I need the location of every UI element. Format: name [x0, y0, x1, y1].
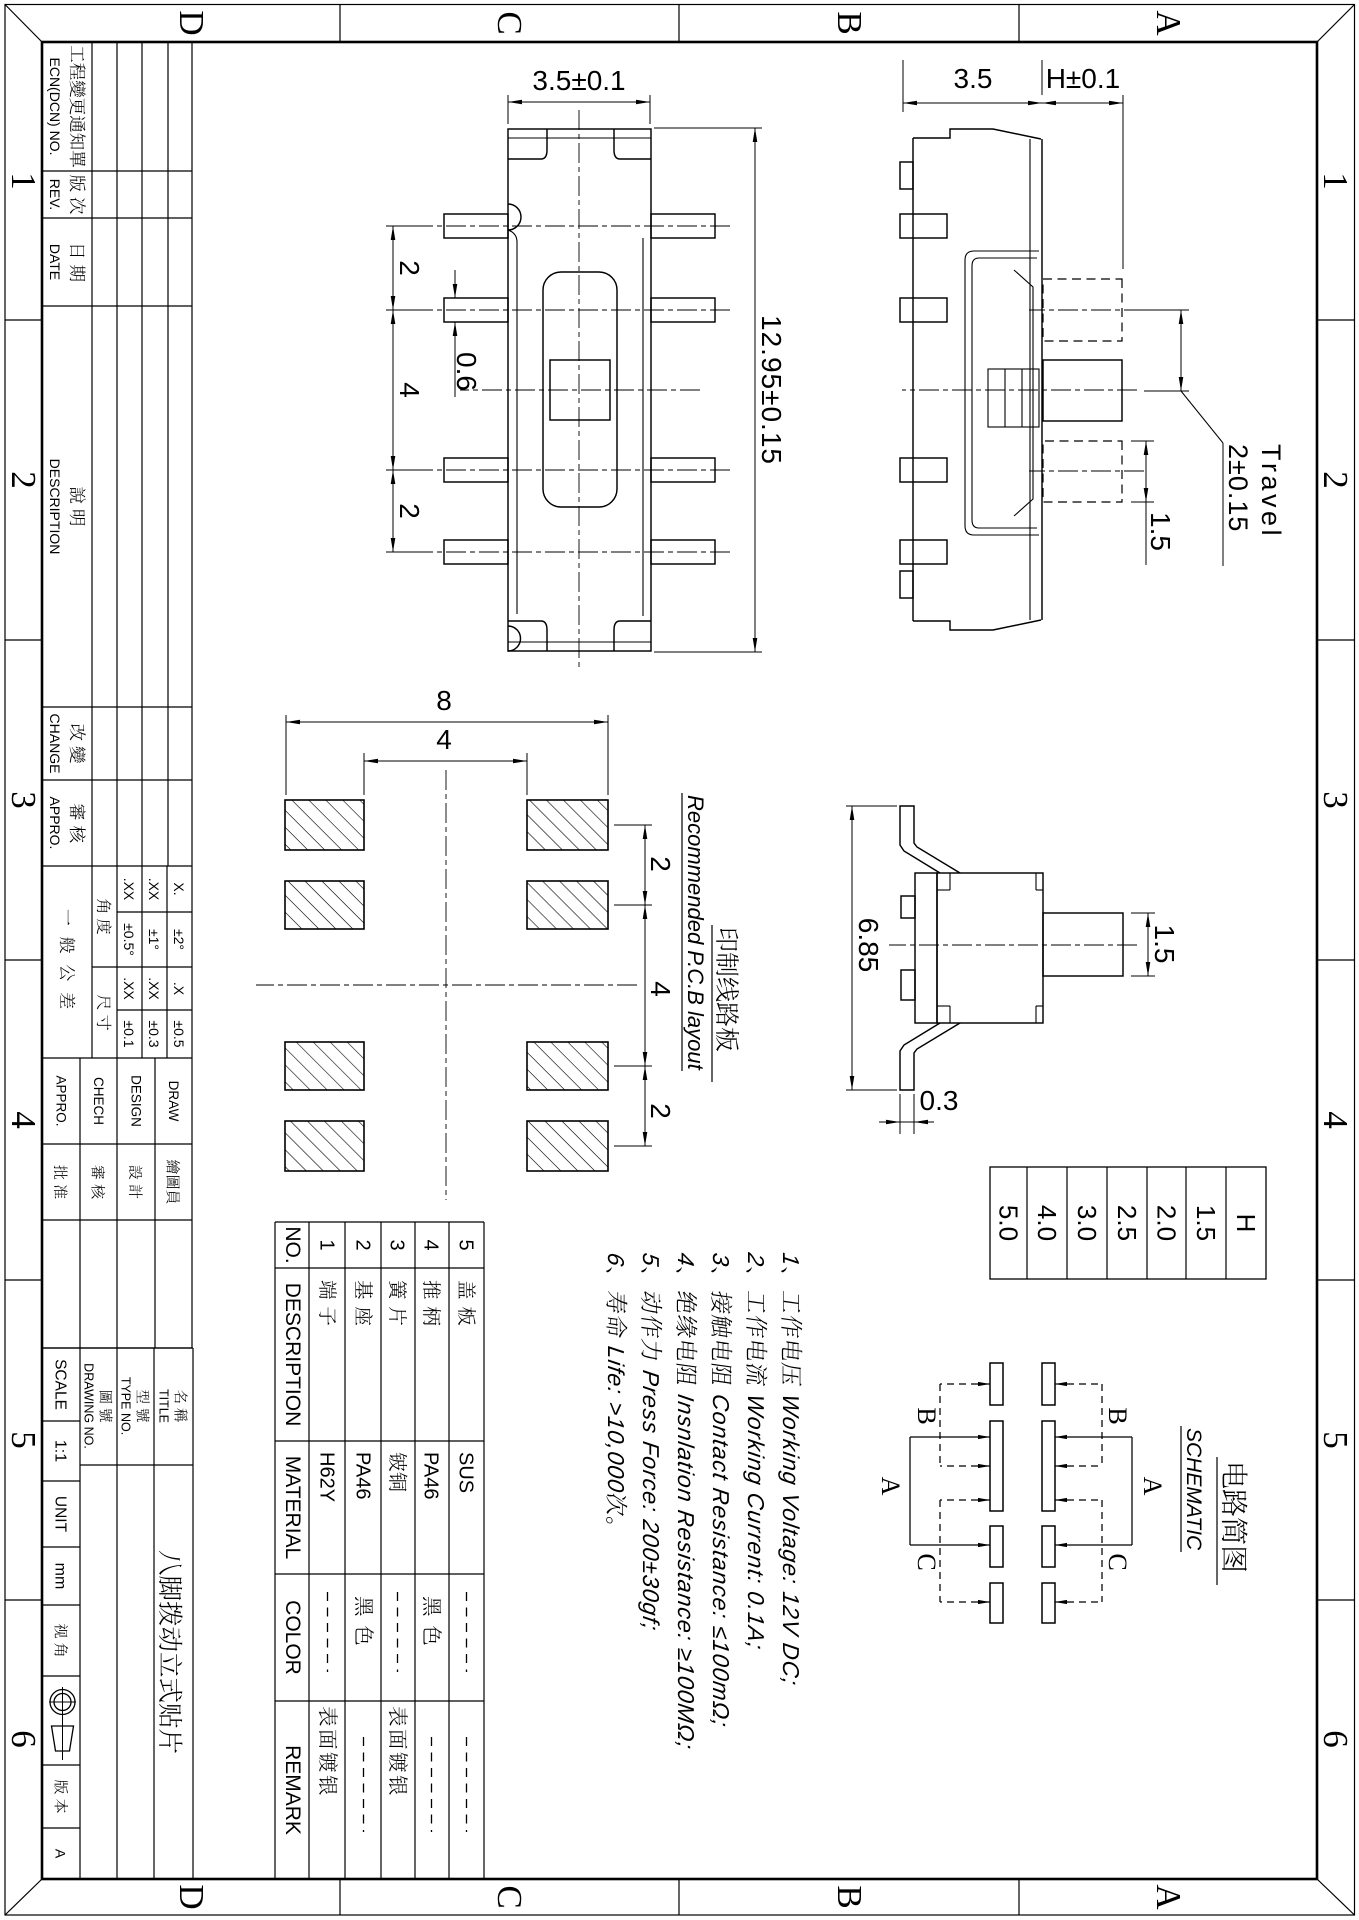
svg-text:B: B [1103, 1407, 1132, 1424]
view 3 left bent leg [900, 806, 960, 873]
zone ticks left/right edges [1018, 5, 1020, 43]
view 2 knob phantom right [1043, 441, 1122, 502]
svg-text:Travel: Travel [1256, 444, 1286, 539]
svg-text:DRAW: DRAW [166, 1081, 181, 1122]
schematic contact 4 bottom row [990, 1583, 1003, 1623]
dim 8 (pad span) [286, 721, 608, 723]
svg-text:4.0: 4.0 [1032, 1205, 1062, 1241]
view 2 left end profile [913, 129, 1041, 139]
svg-text:SCALE: SCALE [52, 1359, 69, 1410]
PCB centerlines [445, 770, 447, 1200]
svg-text:2: 2 [394, 503, 425, 519]
svg-text:SCHEMATIC: SCHEMATIC [1182, 1428, 1205, 1551]
svg-text:5: 5 [638, 1251, 664, 1268]
svg-text:NO.: NO. [281, 1226, 304, 1263]
view 1 centerline vertical [460, 389, 700, 391]
svg-text:Contact Resistance: ≤100mΩ;: Contact Resistance: ≤100mΩ; [708, 1393, 734, 1730]
svg-text:CHECH: CHECH [91, 1077, 106, 1125]
svg-text:±1°: ±1° [146, 929, 162, 950]
view 2 base bottom line [912, 138, 914, 621]
svg-text:1: 1 [4, 172, 43, 190]
svg-text:12.95±0.15: 12.95±0.15 [756, 315, 787, 465]
svg-text:8: 8 [436, 685, 452, 716]
dim chain 2/4/2 (pin pitch) [392, 226, 394, 552]
svg-text:2: 2 [352, 1239, 374, 1250]
dim 4 (pad inner gap) [364, 760, 527, 762]
view 2 centerline [902, 389, 1137, 391]
dim Travel 2±0.15 [1180, 310, 1182, 391]
svg-text:Press Force: 200±30gf;: Press Force: 200±30gf; [638, 1369, 664, 1634]
view 3 right bent leg [900, 1023, 960, 1090]
dim 1.5 (view 3 knob width) [1147, 913, 1149, 976]
svg-text:COLOR: COLOR [281, 1600, 304, 1675]
schematic title [1222, 1465, 1248, 1571]
svg-text:CHANGE: CHANGE [47, 714, 63, 774]
travel leader and label [1181, 391, 1223, 443]
zone ticks top/bottom edges [1317, 319, 1355, 321]
svg-text:MATERIAL: MATERIAL [281, 1456, 304, 1559]
svg-text:DATE: DATE [47, 244, 63, 280]
svg-text:H62Y: H62Y [316, 1452, 338, 1502]
corner diagonal top-right [1317, 1879, 1355, 1915]
view 2 phantom centerlines [1029, 309, 1144, 311]
svg-text:2: 2 [1316, 471, 1355, 489]
svg-text:1: 1 [316, 1239, 338, 1250]
svg-text:1.5: 1.5 [1145, 512, 1176, 551]
svg-text:SUS: SUS [455, 1452, 477, 1493]
view 1: front view outline [508, 129, 651, 651]
svg-text:4: 4 [436, 724, 452, 755]
svg-text:3: 3 [1316, 791, 1355, 809]
svg-text:6: 6 [603, 1251, 629, 1268]
dim 12.95±0.15 (view 1 length) [754, 128, 756, 652]
view 1 left end tab lines [614, 129, 651, 159]
view 3 bottom corner blocks [937, 889, 950, 891]
dim 1.5 (phantom knob width) [1145, 441, 1147, 565]
svg-text:A: A [876, 1477, 905, 1496]
view 2 top cover edge [1041, 139, 1043, 620]
view 1 semicircle notch left [508, 204, 521, 230]
svg-text:C: C [1103, 1553, 1132, 1570]
svg-text:6: 6 [1316, 1730, 1355, 1748]
svg-text:1:1: 1:1 [52, 1440, 69, 1462]
svg-text:±0.1: ±0.1 [121, 1020, 137, 1047]
view 3 top steps [1035, 873, 1037, 890]
wire C top (dashed) [1055, 1499, 1102, 1501]
svg-text:3: 3 [708, 1251, 734, 1268]
wire A top (solid) [1055, 1436, 1132, 1438]
view 3 knob [1043, 913, 1123, 976]
svg-text:DESCRIPTION: DESCRIPTION [47, 459, 63, 555]
svg-text:TYPE NO.: TYPE NO. [119, 1377, 133, 1435]
view 2 slider section [988, 369, 1039, 427]
svg-text:4: 4 [4, 1111, 43, 1129]
schematic common contact 2 bottom row [990, 1421, 1003, 1511]
svg-text:.XX: .XX [121, 878, 137, 901]
svg-text:Life: >10,000: Life: >10,000 [603, 1345, 629, 1495]
view 1 left end seam [508, 137, 651, 139]
svg-text:DESIGN: DESIGN [129, 1075, 144, 1127]
signature table [42, 1143, 192, 1145]
view 3: end view body [937, 873, 1043, 1023]
svg-text:A: A [53, 1849, 69, 1859]
dim 3.5±0.1 (view 1 width) [508, 101, 650, 103]
svg-text:2±0.15: 2±0.15 [1223, 444, 1253, 532]
svg-text:B: B [830, 11, 869, 34]
technical notes [778, 1251, 804, 1687]
svg-text:5: 5 [455, 1239, 477, 1250]
svg-text:DRAWING NO.: DRAWING NO. [82, 1363, 96, 1449]
svg-text:mm: mm [52, 1563, 69, 1590]
schematic contact 1 top row [1042, 1363, 1055, 1405]
dim H±0.1 (knob height) [1042, 102, 1123, 104]
svg-text:4: 4 [394, 382, 425, 398]
part name [159, 1551, 183, 1753]
svg-text:±0.5°: ±0.5° [121, 923, 137, 956]
svg-text:D: D [172, 1884, 211, 1909]
view 2 inner cavity outer shell [965, 251, 1039, 535]
view 2 base feet [900, 214, 947, 238]
svg-text:.XX: .XX [121, 977, 137, 1000]
view 1 right end tab lines [614, 621, 651, 651]
svg-text:1: 1 [1316, 172, 1355, 190]
corner diagonal bottom-right [5, 1879, 42, 1915]
svg-text:±0.3: ±0.3 [146, 1020, 162, 1047]
schematic contact 1 bottom row [990, 1363, 1003, 1405]
view 2 knob solid [1043, 360, 1122, 421]
svg-text:2: 2 [4, 471, 43, 489]
svg-text:3.5±0.1: 3.5±0.1 [532, 65, 625, 96]
svg-text:3.0: 3.0 [1072, 1205, 1102, 1241]
svg-text:UNIT: UNIT [52, 1496, 69, 1533]
view 3 base plate [915, 873, 937, 1023]
view 3 terminal pins under base [901, 896, 915, 918]
svg-text:REMARK: REMARK [281, 1745, 304, 1835]
wire C bottom (dashed) [940, 1499, 990, 1501]
svg-text:2.0: 2.0 [1152, 1205, 1182, 1241]
svg-text:1: 1 [778, 1251, 804, 1268]
svg-text:A: A [1149, 10, 1188, 36]
svg-text:A: A [1138, 1477, 1167, 1496]
svg-text:PA46: PA46 [420, 1452, 442, 1499]
svg-text:2: 2 [394, 260, 425, 276]
view 1 right end seam [508, 641, 651, 643]
view 1 slider channel [543, 272, 617, 507]
svg-text:C: C [490, 11, 529, 34]
svg-text:2: 2 [645, 1103, 676, 1119]
schematic contact 3 top row [1042, 1526, 1055, 1567]
title block [42, 1347, 193, 1349]
svg-text:4: 4 [673, 1251, 699, 1268]
svg-text:4: 4 [420, 1239, 442, 1250]
svg-text:C: C [912, 1553, 941, 1570]
dim 3.5 (view 2 height) [903, 102, 1042, 104]
third-angle projection symbol [50, 1690, 75, 1715]
svg-text:Working Current: 0.1A;: Working Current: 0.1A; [743, 1393, 769, 1653]
svg-text:B: B [912, 1407, 941, 1424]
svg-text:H±0.1: H±0.1 [1046, 63, 1121, 94]
corner diagonal bottom-left [5, 5, 42, 43]
svg-text:0.6: 0.6 [451, 352, 482, 391]
svg-text:DESCRIPTION: DESCRIPTION [281, 1283, 304, 1427]
wire B bottom (dashed) [940, 1383, 990, 1385]
svg-text:APPRO.: APPRO. [54, 1075, 69, 1126]
parts list table [275, 1221, 484, 1223]
svg-text:A: A [1149, 1884, 1188, 1910]
svg-text:2.5: 2.5 [1112, 1205, 1142, 1241]
wire A bottom (solid) [910, 1436, 990, 1438]
schematic contact 3 bottom row [990, 1526, 1003, 1567]
svg-text:1.5: 1.5 [1191, 1205, 1221, 1241]
schematic contact 4 top row [1042, 1583, 1055, 1623]
view 2 inner cavity inner shell [972, 258, 1037, 528]
svg-text:Working Voltage: 12V DC;: Working Voltage: 12V DC; [778, 1393, 804, 1688]
view 2 cavity neck lines [1014, 270, 1033, 516]
svg-text:6.85: 6.85 [853, 918, 884, 973]
svg-text:H: H [1231, 1214, 1261, 1233]
svg-text:APPRO.: APPRO. [47, 797, 63, 850]
svg-text:Insnlation Resistance: ≥100MΩ;: Insnlation Resistance: ≥100MΩ; [673, 1393, 699, 1752]
dim 6.85 (view 3 overall width) [851, 806, 853, 1090]
svg-text:±2°: ±2° [171, 929, 187, 950]
view 1 semicircle notch right [508, 626, 521, 651]
svg-text:2: 2 [743, 1250, 769, 1268]
svg-text:3.5: 3.5 [954, 63, 993, 94]
svg-text:TITLE: TITLE [157, 1389, 171, 1423]
svg-text:.XX: .XX [146, 878, 162, 901]
svg-text:2: 2 [645, 856, 676, 872]
corner diagonal top-left [1317, 5, 1355, 43]
svg-text:REV.: REV. [47, 179, 63, 210]
PCB layout titles [716, 929, 739, 1051]
svg-text:4: 4 [645, 981, 676, 997]
view 1 pins [651, 214, 715, 238]
general tolerance table [191, 866, 193, 1058]
schematic common contact 2 top row [1042, 1421, 1055, 1511]
svg-text:5.0: 5.0 [994, 1205, 1024, 1241]
view 2 right end profile [913, 620, 1041, 630]
svg-text:1.5: 1.5 [1149, 925, 1180, 964]
svg-text:X.: X. [171, 882, 187, 895]
svg-text:ECN(DCN) NO.: ECN(DCN) NO. [47, 58, 63, 156]
view 1 pin axes [428, 225, 730, 227]
svg-text:PA46: PA46 [352, 1452, 374, 1499]
view 1 slider knob [550, 360, 610, 420]
view 2 knob phantom left [1043, 279, 1122, 341]
svg-text:D: D [172, 10, 211, 35]
svg-text:3: 3 [386, 1239, 408, 1250]
svg-text:.XX: .XX [146, 977, 162, 1000]
view 1 centerline horizontal [578, 110, 580, 670]
svg-text:Recommended P.C.B layout: Recommended P.C.B layout [683, 795, 708, 1071]
svg-text:5: 5 [4, 1431, 43, 1449]
svg-text:±0.5: ±0.5 [171, 1020, 187, 1047]
svg-text:6: 6 [4, 1730, 43, 1748]
view 1 cover seam lines [508, 230, 517, 614]
H dimension table [990, 1167, 1266, 1279]
dim chain 2/4/2 (pad pitch) [644, 825, 646, 1146]
view 3 centerline [889, 944, 1137, 946]
dim 0.6 (pin width) [454, 270, 456, 298]
svg-text:3: 3 [4, 791, 43, 809]
view 2 cover under line [1029, 139, 1031, 620]
svg-text:B: B [830, 1885, 869, 1908]
revision table [191, 42, 193, 866]
svg-text:0.3: 0.3 [920, 1085, 959, 1116]
svg-text:5: 5 [1316, 1431, 1355, 1449]
svg-text:4: 4 [1316, 1111, 1355, 1129]
wire B top (dashed) [1055, 1383, 1102, 1385]
svg-text:.X: .X [171, 982, 187, 996]
dim 0.3 (leg thickness) [879, 1121, 934, 1123]
svg-text:C: C [490, 1885, 529, 1908]
